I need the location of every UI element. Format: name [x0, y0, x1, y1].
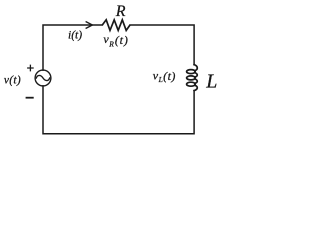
svg-text:(t): (t) — [115, 33, 129, 47]
svg-text:L: L — [158, 75, 163, 84]
svg-text:R: R — [108, 40, 114, 49]
svg-text:v(t): v(t) — [4, 74, 21, 86]
svg-text:(t): (t) — [163, 69, 176, 83]
svg-text:R: R — [115, 3, 126, 20]
svg-text:i(t): i(t) — [68, 30, 82, 42]
svg-text:L: L — [205, 71, 217, 93]
